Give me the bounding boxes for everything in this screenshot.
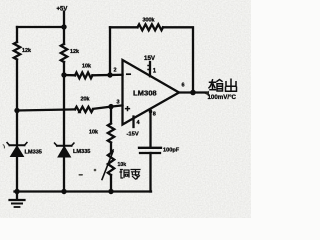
pin 8 stub [149,110,151,148]
pin 7 supply stub [149,62,151,76]
svg-text:+5V: +5V [57,7,68,13]
node A column1 tap [14,108,19,113]
resistor R2 12k [61,44,67,62]
wire ground rail [15,190,152,192]
svg-text:12k: 12k [22,48,31,54]
resistor R4 300k [138,24,163,30]
node noninverting junction [108,104,113,109]
node output junction [190,90,196,96]
ground [10,192,25,208]
svg-text:LM335: LM335 [25,150,42,156]
svg-text:3: 3 [117,100,120,106]
potentiometer RP zero adjust [102,149,114,180]
svg-text:10k: 10k [118,162,127,168]
svg-text:300k: 300k [143,17,155,23]
output wire end tick [205,91,209,96]
svg-text:2: 2 [114,68,117,74]
wire feedback vertical [109,27,111,75]
wire output [179,91,207,93]
svg-text:-15V: -15V [127,132,139,138]
wire offset branch bottom [110,175,112,192]
resistor R5 20k [75,107,93,112]
node pin8 [149,110,153,114]
label minus input [127,73,130,75]
wire column1 top [16,27,18,42]
resistor R1 12k [14,42,20,60]
wire noninverting row right [93,105,123,109]
wire column2 top [63,27,65,44]
svg-text:12k: 12k [70,49,79,55]
svg-text:6: 6 [182,83,185,89]
svg-text:LM335: LM335 [73,149,90,155]
wire offset branch upper [110,107,112,124]
wire capacitor bottom [149,153,151,192]
label shuchu output glyphs [209,79,237,91]
svg-text:20k: 20k [81,97,90,103]
label tiaoling zero-adjust glyphs [120,170,140,180]
node column1 ground junction [14,189,19,194]
svg-text:10k: 10k [89,130,98,136]
wire feedback top left [110,26,138,28]
wire column1 bottom [16,157,18,192]
svg-text:10k: 10k [82,64,91,70]
node inverting junction [107,72,112,77]
node supply junction [61,24,66,29]
svg-text:100mV/°C: 100mV/°C [208,95,237,101]
wire top rail [17,26,64,28]
resistor R3 10k [75,73,92,79]
pin ticks [148,66,150,70]
capacitor C1 [139,148,161,153]
wire column1 middle [16,60,18,146]
speckle marks [3,144,97,176]
svg-text:100pF: 100pF [163,148,180,154]
wire +5V stub [63,12,65,28]
svg-text:LM308: LM308 [133,89,157,98]
wire column2 middle [63,62,65,146]
svg-text:8: 8 [153,112,156,118]
wire inverting row right [92,74,122,77]
wire feedback top right [163,27,193,92]
sensor LM335 D2 [55,143,74,157]
label plus input [126,107,130,111]
sensor LM335 D1 [7,143,27,157]
wire offset branch middle [110,143,112,154]
wire noninverting row left [17,109,75,110]
op-amp U1 LM308 [123,60,180,125]
node B column2 tap [61,72,66,77]
node offset ground junction [108,189,113,194]
wire inverting row left [64,74,75,77]
resistor R6 10k [108,124,114,143]
wire column2 bottom [63,157,65,192]
node column2 ground junction [61,189,66,194]
pin 4 stub [132,117,134,128]
